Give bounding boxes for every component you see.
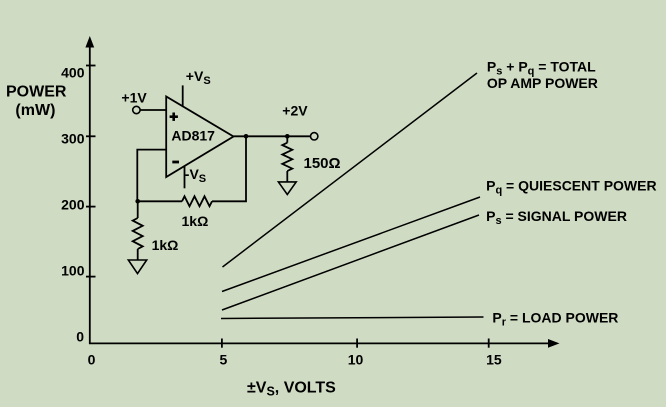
svg-text:1kΩ: 1kΩ [152,237,179,253]
output terminal +2V [311,133,318,140]
wire input to + [140,109,166,111]
svg-text:5: 5 [220,351,228,367]
ground symbol right [278,182,296,195]
svg-text:+2V: +2V [282,103,308,119]
wire op-amp output [234,135,311,137]
op-amp U1 triangle [166,97,233,178]
input terminal +1V [133,106,140,113]
+Vs supply wire [182,85,184,106]
svg-text:0: 0 [76,329,84,345]
svg-text:POWER: POWER [6,83,67,100]
wire feedback resistor to output [212,136,246,201]
x-axis [89,342,551,344]
x-axis arrowhead [548,339,560,348]
resistor R1 1k grounded [133,218,143,249]
svg-text:300: 300 [61,131,85,147]
svg-text:AD817: AD817 [171,128,215,144]
op-amp - input marker [172,161,179,164]
-Vs supply wire [184,166,186,188]
y tick 300 [86,135,96,137]
svg-text:15: 15 [486,351,502,367]
y tick 400 [86,65,96,67]
svg-text:OP AMP POWER: OP AMP POWER [487,75,598,91]
svg-text:1kΩ: 1kΩ [182,213,209,229]
ground symbol left [128,260,146,274]
x tick 15 [488,339,490,348]
svg-text:200: 200 [61,196,85,212]
x tick 10 [356,339,358,348]
node feedback junction [135,199,140,204]
node output junction [244,134,249,139]
svg-text:+1V: +1V [121,89,147,105]
svg-text:0: 0 [88,351,96,367]
curve quiescent power [222,197,480,292]
op-amp + input marker [170,115,178,118]
x tick 5 [221,339,223,348]
curve signal power [222,215,479,310]
y tick 100 [86,276,96,278]
svg-text:150Ω: 150Ω [304,155,341,172]
svg-text:10: 10 [348,351,364,367]
svg-text:(mW): (mW) [15,102,55,119]
svg-text:±VS, VOLTS: ±VS, VOLTS [247,380,336,399]
curve load power [221,317,484,319]
curve total power [223,73,478,267]
wire junction to feedback resistor [138,200,182,202]
node load tap [285,134,290,139]
svg-text:400: 400 [61,65,85,81]
wire resistor to ground [137,249,139,260]
y-axis [89,44,91,344]
resistor RL 150 [282,143,292,171]
wire inverting input [137,150,166,202]
wire tap to 150 resistor [286,136,288,142]
y-axis arrowhead [85,36,94,48]
y tick 200 [86,206,96,208]
wire junction down to grounded resistor [137,201,139,218]
wire 150 to ground [286,171,288,182]
svg-text:100: 100 [61,263,85,279]
resistor R2 1k feedback [182,196,212,206]
